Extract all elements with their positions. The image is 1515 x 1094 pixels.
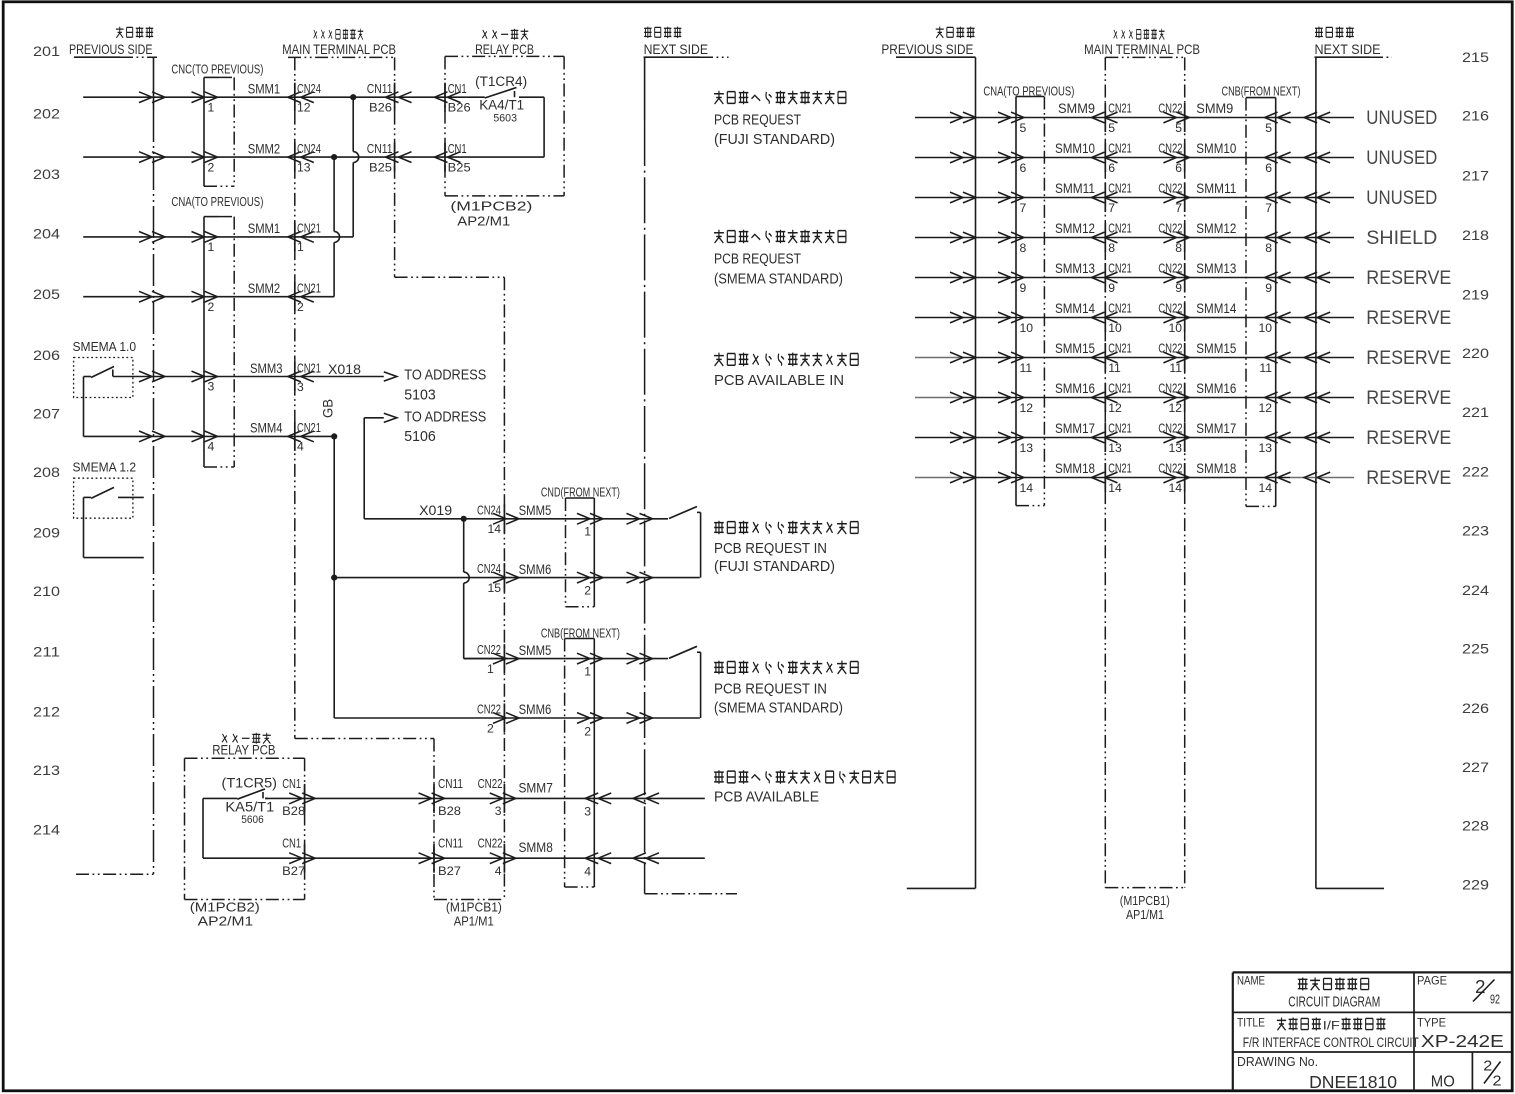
wire SMM6 row (CN24 pin15): GB junction to contact return: [334, 572, 700, 583]
next-side contact for SMM5/SMM6 (SMEMA): [669, 646, 701, 718]
svg-text:1: 1: [297, 240, 304, 254]
svg-text:10: 10: [1020, 321, 1034, 335]
svg-text:DRAWING No.: DRAWING No.: [1237, 1054, 1318, 1069]
svg-text:(SMEMA STANDARD): (SMEMA STANDARD): [714, 271, 843, 287]
svg-text:CN22: CN22: [1158, 381, 1182, 396]
svg-text:3: 3: [208, 380, 215, 394]
pin label CN21 6: [1108, 141, 1132, 175]
svg-text:215: 215: [1462, 50, 1489, 65]
svg-text:AP1/M1: AP1/M1: [454, 915, 494, 929]
svg-text:CN22: CN22: [478, 836, 503, 851]
svg-text:SMM11: SMM11: [1196, 180, 1236, 196]
svg-text:CNA(TO PREVIOUS): CNA(TO PREVIOUS): [171, 194, 263, 209]
svg-text:PCB REQUEST: PCB REQUEST: [714, 252, 801, 268]
annotation TO ADDRESS 5106: [404, 409, 486, 445]
junction node GB / CN24 pin15 row: [331, 575, 337, 581]
svg-text:SMM17: SMM17: [1055, 420, 1095, 436]
svg-text:4: 4: [297, 440, 304, 454]
svg-text:209: 209: [33, 526, 60, 541]
pin label CN1 B27 (relay): [282, 836, 305, 878]
svg-text:XP-242E: XP-242E: [1421, 1031, 1504, 1051]
annotation: PCB REQUEST IN (FUJI STANDARD): [714, 521, 858, 575]
svg-text:SMM12: SMM12: [1196, 220, 1236, 236]
pin label CN1 B25 (relay): [448, 141, 471, 175]
pin label CN22 13: [1158, 421, 1182, 455]
pin bracket segments on main terminal PCB boundaries: [295, 83, 505, 873]
header PREVIOUS SIDE (left half): [69, 27, 157, 58]
svg-text:CN22: CN22: [1158, 221, 1182, 236]
wire GB riser: SMM4 row to CN22 pin2 row: [334, 436, 508, 718]
pin label CN22 12: [1158, 381, 1182, 415]
svg-text:PCB REQUEST IN: PCB REQUEST IN: [714, 541, 827, 557]
svg-text:CN22: CN22: [477, 642, 501, 657]
pin label CN21 13: [1108, 421, 1132, 455]
svg-text:SMM13: SMM13: [1196, 260, 1236, 276]
svg-text:TO ADDRESS: TO ADDRESS: [404, 368, 486, 384]
wire SMM12 row (right half): [915, 232, 1354, 243]
switch SMEMA 1.0: [73, 339, 137, 398]
svg-text:CN22: CN22: [1158, 301, 1182, 316]
svg-text:5: 5: [1175, 121, 1182, 135]
title block TITLE cell: [1237, 1016, 1419, 1052]
wire SMEMA 1.0 common down to SMM4 row: [83, 377, 85, 437]
svg-text:NEXT SIDE: NEXT SIDE: [644, 41, 708, 57]
svg-text:SMM3: SMM3: [250, 360, 283, 376]
wire SMM11 row (right half): [915, 192, 1354, 203]
switch SMEMA 1.2: [73, 460, 144, 558]
annotation: PCB REQUEST IN (SMEMA STANDARD): [714, 661, 858, 717]
pin label CN21 8: [1108, 221, 1132, 255]
wire SMM15 row (right half): [915, 352, 1354, 363]
svg-text:222: 222: [1462, 465, 1489, 480]
wire SMM18 row (right half): [915, 472, 1354, 483]
svg-text:CN21: CN21: [1108, 141, 1132, 156]
header MAIN TERMINAL PCB (left half): [282, 29, 396, 57]
svg-text:PAGE: PAGE: [1417, 974, 1447, 988]
svg-text:X018: X018: [328, 362, 361, 377]
svg-text:213: 213: [33, 763, 60, 778]
svg-text:TO ADDRESS: TO ADDRESS: [404, 409, 486, 425]
svg-text:(M1PCB1): (M1PCB1): [446, 901, 502, 915]
svg-text:SMM16: SMM16: [1196, 380, 1236, 396]
pin label CN11 B25: [367, 141, 393, 175]
svg-text:11: 11: [1259, 361, 1272, 375]
svg-text:B25: B25: [448, 160, 471, 174]
title block PAGE cell: [1417, 974, 1500, 1007]
svg-text:10: 10: [1168, 321, 1182, 335]
svg-text:4: 4: [495, 864, 502, 878]
wire X019 elbow to TO ADDRESS 5106 arrow: [364, 413, 397, 519]
svg-text:2: 2: [1483, 1058, 1492, 1075]
svg-text:SHIELD: SHIELD: [1366, 227, 1437, 249]
svg-text:CNC(TO PREVIOUS): CNC(TO PREVIOUS): [171, 62, 263, 77]
svg-text:8: 8: [1175, 241, 1182, 255]
pin label CN22 3: [478, 776, 503, 818]
svg-text:CN1: CN1: [282, 836, 301, 851]
pin label CN22 4: [478, 836, 503, 878]
svg-text:RESERVE: RESERVE: [1366, 427, 1451, 449]
svg-text:CN11: CN11: [367, 141, 393, 156]
svg-text:MAIN TERMINAL PCB: MAIN TERMINAL PCB: [282, 42, 396, 57]
svg-text:9: 9: [1265, 281, 1272, 295]
wire SMM4 row: SMEMA 1.0 to GB riser: [84, 431, 335, 442]
svg-text:228: 228: [1462, 819, 1489, 834]
svg-text:2: 2: [1493, 1073, 1502, 1090]
connector CNA(TO PREVIOUS) (right half): [983, 84, 1074, 506]
pin label CN22 7: [1158, 181, 1182, 215]
svg-text:10: 10: [1258, 321, 1272, 335]
header RELAY PCB (left half top): [475, 29, 534, 57]
svg-text:4: 4: [584, 865, 591, 879]
pin label CN21 3: [297, 360, 321, 394]
svg-text:SMEMA 1.0: SMEMA 1.0: [73, 339, 137, 354]
svg-text:CIRCUIT DIAGRAM: CIRCUIT DIAGRAM: [1288, 995, 1380, 1011]
svg-text:CN21: CN21: [1108, 461, 1132, 476]
svg-text:B27: B27: [282, 864, 305, 878]
svg-text:CN21: CN21: [297, 281, 321, 296]
wire from row2 junction down to CN21 pin2 row (hops CN21-1 row): [334, 157, 340, 297]
header NEXT SIDE (left half): [644, 27, 729, 58]
wire SMM16 row (right half): [915, 392, 1354, 403]
svg-text:SMM12: SMM12: [1055, 220, 1095, 236]
svg-text:SMEMA 1.2: SMEMA 1.2: [73, 460, 137, 475]
svg-text:2: 2: [297, 300, 304, 314]
svg-text:PCB AVAILABLE IN: PCB AVAILABLE IN: [714, 373, 844, 389]
svg-text:SMM18: SMM18: [1055, 460, 1095, 476]
svg-text:6: 6: [1108, 161, 1115, 175]
connector CND(FROM NEXT): [541, 485, 620, 607]
svg-text:14: 14: [487, 522, 501, 536]
svg-text:220: 220: [1462, 346, 1489, 361]
next side boundary line (right half): [1316, 57, 1384, 888]
title block: [1233, 972, 1511, 1091]
junction node X019 branch: [461, 516, 467, 522]
svg-text:5103: 5103: [404, 387, 436, 403]
svg-text:13: 13: [1108, 441, 1122, 455]
svg-text:CN21: CN21: [1108, 181, 1132, 196]
svg-text:SMM9: SMM9: [1196, 100, 1233, 116]
annotation: PCB AVAILABLE: [714, 770, 895, 805]
svg-text:UNUSED: UNUSED: [1366, 187, 1437, 209]
pin label CN22 5: [1158, 101, 1182, 135]
annotation: PCB REQUEST (SMEMA STANDARD): [714, 230, 846, 288]
svg-text:KA5/T1: KA5/T1: [225, 800, 274, 815]
wire SMM3 row: SMEMA 1.0 to CN21 pin3 and X018 arrow: [113, 371, 397, 382]
junction node SMM4 / GB: [331, 433, 337, 439]
main terminal PCB boundary box M1PCB1 (right half): [1105, 57, 1184, 887]
svg-text:(FUJI STANDARD): (FUJI STANDARD): [714, 132, 835, 148]
svg-text:219: 219: [1462, 287, 1489, 302]
svg-text:B28: B28: [282, 804, 305, 818]
connector CNC(TO PREVIOUS): [171, 62, 263, 187]
svg-text:202: 202: [33, 107, 60, 122]
svg-text:CN1: CN1: [448, 141, 467, 156]
svg-text:MAIN TERMINAL PCB: MAIN TERMINAL PCB: [1084, 42, 1200, 57]
svg-text:SMM17: SMM17: [1196, 420, 1236, 436]
svg-text:CN21: CN21: [297, 360, 321, 375]
svg-text:SMM1: SMM1: [248, 81, 281, 97]
left margin line numbers 201-214: [33, 44, 60, 837]
svg-text:11: 11: [1108, 361, 1121, 375]
svg-text:13: 13: [297, 160, 311, 174]
svg-text:TITLE: TITLE: [1237, 1016, 1265, 1030]
svg-text:5: 5: [1265, 121, 1272, 135]
pin label CN21 10: [1108, 301, 1132, 335]
svg-text:CN22: CN22: [478, 776, 503, 791]
svg-text:92: 92: [1490, 992, 1500, 1007]
wire SMM14 row (right half): [915, 312, 1354, 323]
svg-text:SMM7: SMM7: [519, 779, 553, 795]
svg-text:11: 11: [1169, 361, 1182, 375]
svg-text:CN24: CN24: [477, 502, 501, 517]
svg-text:(T1CR4): (T1CR4): [475, 74, 527, 89]
svg-text:204: 204: [33, 226, 60, 241]
svg-text:RESERVE: RESERVE: [1366, 267, 1451, 289]
svg-text:AP1/M1: AP1/M1: [1126, 908, 1164, 922]
junction node row1 to CN21-1: [350, 94, 356, 100]
svg-text:B26: B26: [369, 101, 392, 115]
pin label CN11 B28: [438, 776, 463, 818]
svg-text:RESERVE: RESERVE: [1366, 347, 1451, 369]
pin label CN22 11: [1158, 341, 1182, 375]
svg-text:(T1CR5): (T1CR5): [222, 776, 278, 791]
wire SMM7 row: relay CN1 B28 to next side: [265, 793, 705, 804]
svg-text:CN21: CN21: [297, 420, 321, 435]
svg-text:(FUJI STANDARD): (FUJI STANDARD): [714, 559, 835, 575]
svg-text:5606: 5606: [241, 814, 263, 826]
pin label CN21 2: [297, 281, 321, 315]
svg-text:SMM9: SMM9: [1058, 100, 1095, 116]
svg-text:PCB AVAILABLE: PCB AVAILABLE: [714, 790, 819, 806]
pin label CN21 9: [1108, 261, 1132, 295]
wire SMM13 row (right half): [915, 272, 1354, 283]
svg-text:5: 5: [1108, 121, 1115, 135]
svg-text:6: 6: [1020, 161, 1027, 175]
svg-text:203: 203: [33, 167, 60, 182]
wire SMM9 row (right half): [915, 112, 1354, 123]
svg-text:(M1PCB2): (M1PCB2): [190, 901, 260, 915]
svg-text:3: 3: [297, 380, 304, 394]
svg-text:CN1: CN1: [448, 81, 467, 96]
svg-text:PCB REQUEST: PCB REQUEST: [714, 113, 801, 129]
svg-text:B27: B27: [438, 864, 461, 878]
svg-text:212: 212: [33, 705, 60, 720]
wire SMM5 row (CN24 pin14) X019 to next side contact: [364, 513, 668, 524]
wire from row1 junction down to CN21 pin1 row (hops row2): [353, 97, 359, 237]
pin label CN21 5: [1108, 101, 1132, 135]
svg-text:1: 1: [208, 101, 215, 115]
svg-text:14: 14: [1168, 481, 1182, 495]
svg-text:MO: MO: [1431, 1074, 1455, 1091]
svg-text:210: 210: [33, 584, 60, 599]
svg-text:SMM14: SMM14: [1196, 300, 1236, 316]
svg-text:15: 15: [487, 581, 501, 595]
svg-text:SMM10: SMM10: [1055, 140, 1095, 156]
svg-text:CN1: CN1: [282, 776, 301, 791]
wire SMM2 row (CN21): previous side to junction riser: [83, 291, 334, 302]
pin label CN22 8: [1158, 221, 1182, 255]
svg-text:4: 4: [208, 440, 215, 454]
svg-text:X019: X019: [419, 503, 452, 518]
svg-text:CN22: CN22: [1158, 461, 1182, 476]
svg-text:CN22: CN22: [1158, 141, 1182, 156]
header MAIN TERMINAL PCB (right half): [1084, 29, 1200, 57]
svg-text:CN22: CN22: [1158, 181, 1182, 196]
svg-text:14: 14: [1108, 481, 1122, 495]
pin label CN21 11: [1108, 341, 1132, 375]
svg-text:SMM6: SMM6: [519, 561, 552, 577]
svg-text:1: 1: [487, 662, 494, 676]
label (M1PCB2) AP2/M1 under top relay PCB: [450, 200, 532, 229]
svg-text:RESERVE: RESERVE: [1366, 387, 1451, 409]
wire SMM10 row (right half): [915, 152, 1354, 163]
svg-text:SMM13: SMM13: [1055, 260, 1095, 276]
svg-text:CN11: CN11: [438, 776, 463, 791]
connector CNB(FROM NEXT) (right half): [1222, 84, 1301, 507]
svg-text:229: 229: [1462, 878, 1489, 893]
svg-text:SMM2: SMM2: [248, 280, 281, 296]
svg-text:9: 9: [1175, 281, 1182, 295]
svg-text:UNUSED: UNUSED: [1366, 147, 1437, 169]
svg-text:217: 217: [1462, 169, 1489, 184]
pin label CN22 1: [477, 642, 501, 676]
svg-text:207: 207: [33, 406, 60, 421]
svg-text:CN22: CN22: [1158, 261, 1182, 276]
svg-text:8: 8: [1108, 241, 1115, 255]
title block DRAWING No. cell: [1237, 1054, 1397, 1092]
pin label CN24 12: [297, 81, 321, 115]
svg-text:B25: B25: [369, 160, 392, 174]
svg-text:1: 1: [208, 240, 215, 254]
svg-text:SMM6: SMM6: [519, 701, 552, 717]
wire SMM8 row: relay CN1 B27 to next side: [203, 853, 705, 864]
svg-text:208: 208: [33, 465, 60, 480]
svg-text:223: 223: [1462, 523, 1489, 538]
svg-text:SMM14: SMM14: [1055, 300, 1095, 316]
pin label CN21 14: [1108, 461, 1132, 495]
svg-text:2: 2: [208, 300, 215, 314]
svg-text:CN21: CN21: [1108, 221, 1132, 236]
svg-text:CN22: CN22: [1158, 421, 1182, 436]
svg-text:11: 11: [1020, 361, 1033, 375]
pin label CN21 12: [1108, 381, 1132, 415]
svg-text:AP2/M1: AP2/M1: [457, 215, 510, 229]
svg-text:CN22: CN22: [1158, 101, 1182, 116]
label (M1PCB1) AP1/M1 under left-half main terminal PCB: [446, 901, 502, 929]
svg-text:206: 206: [33, 348, 60, 363]
svg-text:RESERVE: RESERVE: [1366, 467, 1451, 489]
svg-text:7: 7: [1108, 201, 1115, 215]
svg-text:205: 205: [33, 287, 60, 302]
wire SMM17 row (right half): [915, 432, 1354, 443]
svg-text:3: 3: [584, 805, 591, 819]
svg-text:13: 13: [1258, 441, 1272, 455]
svg-text:NAME: NAME: [1237, 974, 1265, 988]
svg-text:14: 14: [1258, 481, 1272, 495]
svg-text:12: 12: [1108, 401, 1122, 415]
pin label CN11 B27: [438, 836, 463, 878]
svg-text:PREVIOUS SIDE: PREVIOUS SIDE: [881, 41, 973, 57]
pin label CN24 15: [477, 561, 501, 595]
svg-text:RELAY PCB: RELAY PCB: [212, 743, 275, 758]
previous side boundary line (left half): [76, 57, 154, 874]
next side boundary line (left half): [645, 57, 737, 894]
svg-text:CN11: CN11: [438, 836, 463, 851]
svg-text:CN21: CN21: [1108, 421, 1132, 436]
svg-text:PREVIOUS SIDE: PREVIOUS SIDE: [69, 41, 153, 57]
svg-text:RESERVE: RESERVE: [1366, 307, 1451, 329]
title block sheet 2/2 cell: [1483, 1058, 1501, 1090]
svg-text:SMM11: SMM11: [1055, 180, 1095, 196]
svg-text:6: 6: [1175, 161, 1182, 175]
svg-text:KA4/T1: KA4/T1: [479, 98, 524, 113]
header RELAY PCB (bottom): [212, 733, 275, 758]
label (M1PCB2) AP2/M1 under bottom relay PCB: [190, 901, 260, 929]
wire SMM1 row: previous side to relay CN1 B26: [83, 92, 485, 103]
relay PCB boundary box (bottom, M1PCB2): [185, 758, 305, 899]
svg-text:CN21: CN21: [297, 221, 321, 236]
annotation: PCB REQUEST (FUJI STANDARD): [714, 91, 846, 149]
connector CNA(TO PREVIOUS) (left half): [171, 194, 263, 467]
wire SMM2 row: previous side to relay CN1 B25: [83, 152, 544, 163]
relay contact T1CR4: [475, 74, 544, 157]
svg-text:2: 2: [487, 721, 494, 735]
svg-text:SMM1: SMM1: [248, 220, 281, 236]
svg-text:I/F: I/F: [1323, 1019, 1340, 1033]
svg-text:B28: B28: [438, 804, 461, 818]
svg-text:CN11: CN11: [367, 81, 393, 96]
wire SMM6 row (CN22 pin2): GB to contact return: [493, 713, 700, 724]
svg-text:F/R INTERFACE CONTROL CIRCUIT: F/R INTERFACE CONTROL CIRCUIT: [1243, 1035, 1419, 1051]
svg-text:SMM15: SMM15: [1196, 340, 1236, 356]
svg-text:5: 5: [1020, 121, 1027, 135]
svg-text:CN22: CN22: [1158, 341, 1182, 356]
svg-text:2: 2: [584, 724, 591, 738]
svg-text:218: 218: [1462, 228, 1489, 243]
svg-text:SMM5: SMM5: [519, 502, 552, 518]
svg-text:CN24: CN24: [477, 561, 501, 576]
svg-text:12: 12: [1020, 401, 1034, 415]
svg-text:225: 225: [1462, 642, 1489, 657]
title block NAME cell: [1237, 974, 1380, 1011]
svg-text:RELAY PCB: RELAY PCB: [475, 42, 534, 57]
label (M1PCB1) AP1/M1 (right half): [1120, 894, 1170, 922]
pin label CN22 6: [1158, 141, 1182, 175]
svg-text:3: 3: [495, 804, 502, 818]
relay PCB boundary box (top, M1PCB2): [445, 56, 564, 196]
svg-text:9: 9: [1108, 281, 1115, 295]
svg-text:9: 9: [1020, 281, 1027, 295]
svg-text:7: 7: [1020, 201, 1027, 215]
right margin line numbers 215-229: [1462, 50, 1489, 893]
svg-text:DNEE1810: DNEE1810: [1309, 1072, 1397, 1092]
svg-text:CN21: CN21: [1108, 381, 1132, 396]
svg-text:B26: B26: [448, 101, 471, 115]
svg-text:CNB(FROM NEXT): CNB(FROM NEXT): [1222, 84, 1301, 99]
wire SMM5 row (CN22 pin1) to next side contact: [464, 653, 668, 664]
svg-text:SMM15: SMM15: [1055, 340, 1095, 356]
wire X019 branch riser to CN22 pin1 row (hops SMM6 row): [464, 519, 508, 659]
pin label CN1 B28 (relay): [282, 776, 305, 818]
header NEXT SIDE (right half): [1315, 27, 1393, 58]
annotation: PCB AVAILABLE IN: [714, 353, 858, 389]
svg-text:216: 216: [1462, 109, 1489, 124]
svg-text:211: 211: [33, 645, 60, 660]
svg-text:10: 10: [1108, 321, 1122, 335]
svg-text:PCB REQUEST IN: PCB REQUEST IN: [714, 682, 827, 698]
svg-text:227: 227: [1462, 760, 1489, 775]
svg-text:8: 8: [1020, 241, 1027, 255]
